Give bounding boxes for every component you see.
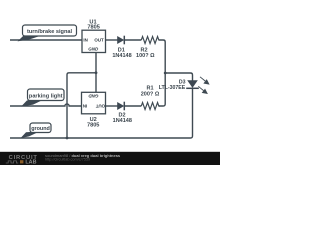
resistor R1 [141, 86, 160, 110]
wire turn/brake net to U1 IN [10, 39, 82, 41]
wire R1 right to riser [159, 105, 160, 107]
svg-text:OUT: OUT [94, 38, 104, 43]
node flag parking light [21, 89, 64, 107]
diode D2 1N4148 [113, 102, 132, 124]
svg-text:parking light: parking light [29, 94, 63, 100]
svg-text:1N4148: 1N4148 [112, 53, 131, 59]
D3 body [187, 80, 198, 88]
wire R2 right to corner and riser down to R1 row [159, 40, 166, 106]
svg-text:100? Ω: 100? Ω [136, 53, 155, 59]
wire D2 cathode to R1 left [124, 105, 141, 107]
node junction ground row [66, 137, 69, 140]
footer bar [0, 152, 220, 165]
resistor R2 [136, 37, 159, 60]
footer CircuitLab logo [6, 155, 38, 166]
wire D1 cathode to R2 left [124, 39, 141, 41]
node flag ground [21, 123, 52, 138]
svg-text:7805: 7805 [87, 123, 99, 129]
svg-text:GND: GND [88, 94, 99, 99]
svg-text:200? Ω: 200? Ω [141, 92, 160, 98]
D2 body [117, 102, 124, 110]
footer title text [45, 153, 121, 161]
R2 body [141, 37, 159, 44]
wire gnd junction left and down to ground row [67, 73, 96, 138]
node flag turn/brake signal [18, 25, 77, 41]
svg-text:http://circuitlab.com/c/7559: http://circuitlab.com/c/7559 [45, 157, 90, 161]
U2 body [82, 92, 106, 114]
wire LED cathode down and ground net horizontal [10, 88, 193, 138]
wire parking light net with hop over gnd branch [10, 104, 82, 106]
svg-text:LAB: LAB [25, 160, 36, 165]
node junction U1/U2 GND tie [95, 71, 98, 74]
wire node junction to LED anode with corner [165, 73, 192, 81]
svg-text:IN: IN [83, 38, 87, 43]
svg-text:OUT: OUT [95, 104, 105, 109]
svg-text:GND: GND [88, 47, 99, 52]
svg-text:turn/brake signal: turn/brake signal [27, 29, 73, 35]
node junction riser to LED [164, 72, 167, 75]
svg-text:1N4148: 1N4148 [113, 118, 132, 124]
wire U2 OUT to D2 anode [106, 105, 118, 107]
diode D1 1N4148 [112, 36, 131, 59]
U1 body [82, 30, 106, 52]
D3 emission arrows [198, 77, 209, 94]
LED D3 LTL-307EE [159, 77, 209, 94]
R1 body [141, 103, 159, 110]
wire U1 OUT to D1 anode [106, 39, 118, 41]
op-amp U2 7805 regulator box (flipped) [82, 92, 106, 128]
svg-text:IN: IN [83, 104, 87, 109]
D1 body [117, 36, 124, 44]
svg-text:LTL-307EE: LTL-307EE [159, 85, 186, 91]
wire U1 GND down to U2 GND [95, 53, 97, 93]
svg-text:ground: ground [31, 126, 50, 132]
svg-text:R1: R1 [146, 86, 153, 92]
op-amp U1 7805 regulator box [82, 19, 106, 52]
svg-text:7805: 7805 [87, 24, 99, 30]
